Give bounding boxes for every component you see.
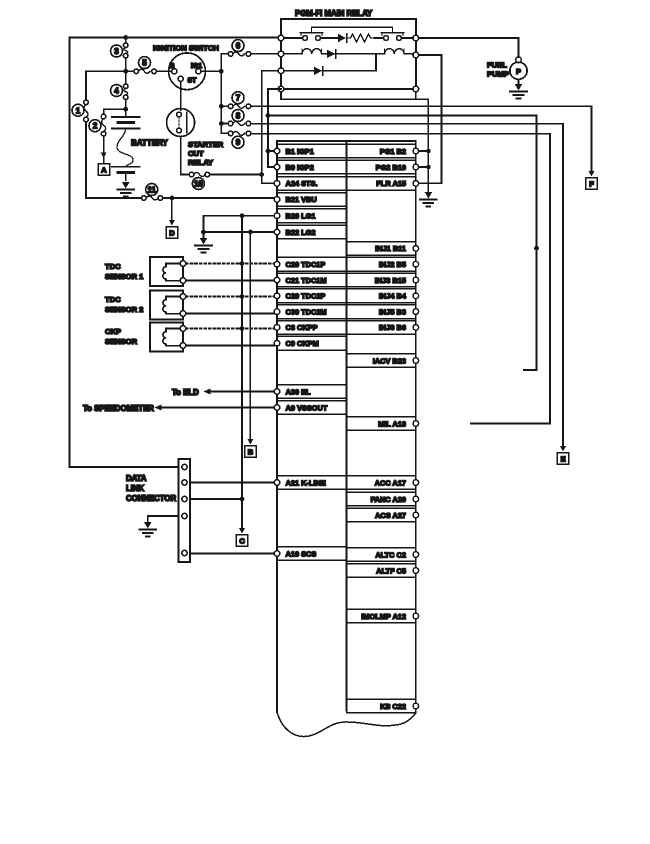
ECU pin box B1 IGP1 (274, 144, 346, 158)
ECU pin box INJ1 B11 (347, 242, 419, 256)
svg-text:5: 5 (142, 59, 147, 68)
connector C with arrow (236, 528, 248, 546)
CKP sensor (150, 323, 186, 352)
wire DLC pin4 to ground (148, 516, 179, 522)
node DLC pin3 junction (240, 497, 245, 502)
wire relay bottom pins to power ground bus (281, 92, 428, 192)
wire ignition vertical bus (220, 54, 222, 133)
fuse 10 (189, 172, 209, 189)
svg-text:B: B (248, 448, 254, 457)
fuse 7 and wire to connector F (221, 92, 591, 172)
svg-text:FANC A20: FANC A20 (371, 495, 406, 504)
TDC sensor 2 (150, 291, 186, 320)
node D branch (170, 196, 175, 201)
svg-text:4: 4 (114, 87, 119, 96)
svg-text:PGM-FI MAIN RELAY: PGM-FI MAIN RELAY (295, 9, 373, 18)
svg-text:8: 8 (236, 112, 241, 121)
svg-text:LINK: LINK (126, 484, 145, 493)
svg-text:2: 2 (93, 122, 98, 131)
ECU pin box INJ2 B5 (347, 257, 419, 271)
relay pin left 1 (278, 35, 284, 41)
node injector feed junction (266, 113, 271, 118)
connector box A with arrow (98, 153, 110, 176)
svg-text:PUMP: PUMP (487, 70, 509, 79)
svg-text:B22 LG2: B22 LG2 (286, 228, 316, 237)
fuse 1 (72, 100, 88, 122)
wire ST to starter cut relay (180, 81, 182, 110)
relay coil 2 (376, 49, 413, 54)
wire battery feed vertical (125, 38, 127, 118)
ECU pin box A10 SCS (274, 547, 346, 561)
wire fuse 10 to STS node (210, 174, 262, 176)
relay pin right 1 (413, 35, 419, 41)
svg-text:IGNITION SWITCH: IGNITION SWITCH (153, 44, 219, 53)
wire injector feed to IAC (268, 116, 537, 371)
wire starter relay to fuse 10 (181, 137, 190, 175)
svg-text:INJ1 B11: INJ1 B11 (375, 244, 406, 253)
ground LG (195, 238, 212, 253)
svg-text:E: E (561, 455, 566, 464)
battery B1 (112, 117, 140, 180)
svg-text:FLR A15: FLR A15 (376, 179, 406, 188)
fuse 9 and wire to MIL (221, 131, 550, 423)
wire relay bottom left to B1 B9 (268, 89, 281, 167)
label TDC SENSOR 2 (105, 295, 143, 314)
connector F with arrow (586, 171, 598, 189)
wire PG2 stub (419, 166, 429, 168)
fuse 6 (221, 40, 281, 57)
ECU pin box B22 LG2 (274, 225, 346, 239)
node PG2 junction (426, 165, 431, 170)
wire DLC pin5 to A10 (190, 553, 274, 555)
node fuse7 junction (219, 104, 224, 109)
relay resistor R1 (347, 34, 375, 42)
node fuse8 junction (219, 121, 224, 126)
wire STS vertical from relay pin3 to A24 (262, 71, 281, 184)
svg-text:11: 11 (147, 186, 156, 195)
svg-text:INJ4 B4: INJ4 B4 (379, 292, 407, 301)
ECU pin box B9 IGP2 (274, 160, 346, 174)
relay pin right 2 (413, 52, 419, 58)
svg-text:A: A (101, 166, 107, 175)
relay diode D2 (322, 50, 376, 71)
wire LG2 vertical bus to connector B (249, 232, 251, 440)
ECU pin box C9 CKPM (274, 336, 346, 350)
ECU pin box C8 CKPP (274, 321, 346, 335)
relay pin bottom right (413, 86, 419, 92)
ECU pin box A9 VSSOUT (274, 401, 346, 415)
relay diode D1 (320, 34, 346, 42)
node battery feed junction (123, 35, 128, 40)
svg-text:C30 TDC2M: C30 TDC2M (286, 307, 327, 316)
svg-text:B: B (169, 63, 174, 70)
svg-text:9: 9 (236, 138, 241, 147)
ground fuel pump (510, 84, 527, 99)
ECU pin box A21 K-LINE (274, 476, 346, 490)
label DATA LINK CONNECTOR (126, 474, 176, 503)
ECU pin box INJ6 B6 (347, 321, 419, 335)
ECU pin box IMOLMP A12 (347, 609, 419, 623)
wire B22 LG2 to ground bus (204, 231, 275, 233)
svg-text:INJ5 B3: INJ5 B3 (379, 307, 406, 316)
ECU box top edge (277, 140, 416, 142)
svg-text:IG1: IG1 (191, 63, 202, 70)
wire CKP shield dotted (186, 328, 274, 330)
svg-text:MIL A18: MIL A18 (378, 419, 406, 428)
svg-text:1: 1 (76, 106, 81, 115)
svg-text:B9 IGP2: B9 IGP2 (286, 163, 314, 172)
relay pin bottom left (278, 86, 284, 92)
relay contact 2 (375, 27, 414, 40)
starter cut relay K2 (167, 109, 195, 137)
node shield bus top (240, 213, 245, 218)
svg-text:ACC A17: ACC A17 (375, 478, 406, 487)
wire TDC2 minus (186, 313, 274, 315)
wire relay pin right2 to FLR (419, 55, 442, 183)
svg-text:IACV B23: IACV B23 (373, 356, 406, 365)
svg-text:CKP: CKP (105, 327, 121, 336)
wire branch to fuse 2 (104, 109, 126, 162)
svg-text:C: C (239, 537, 245, 546)
node branch to fuse 2 (123, 107, 128, 112)
svg-text:SENSOR 1: SENSOR 1 (105, 272, 144, 281)
svg-text:A9 VSSOUT: A9 VSSOUT (286, 403, 328, 412)
node LG junction (201, 230, 206, 235)
relay contact 1 (284, 27, 323, 40)
fuse 11 (142, 184, 163, 201)
ECU pin box INJ5 B3 (347, 305, 419, 319)
wire To ELD with arrow (172, 388, 274, 397)
wire DLC pin2 to A21 (190, 482, 274, 484)
ECU pin box KS C22 (347, 699, 419, 713)
ECU pin box ALTF C5 (347, 564, 419, 578)
svg-text:C8 CKPP: C8 CKPP (286, 323, 318, 332)
wire DLC pin3 to shield bus (190, 498, 242, 500)
wire shield vertical bus to connector C (241, 216, 243, 529)
svg-text:INJ2 B5: INJ2 B5 (379, 260, 406, 269)
svg-text:A30 EL: A30 EL (286, 387, 312, 396)
svg-text:RELAY: RELAY (188, 158, 213, 167)
fuse 5 (134, 57, 156, 74)
label CKP SENSOR (105, 327, 138, 346)
ECU torn bottom edge (277, 712, 416, 737)
wire left frame vertical (69, 38, 71, 468)
relay pin left 2 (278, 51, 284, 57)
data link connector J1 (179, 459, 191, 562)
wire TDC1 minus (186, 280, 274, 282)
connector B with arrow (245, 439, 257, 457)
ECU pin box C29 TDC2P (274, 289, 346, 303)
TDC sensor 1 (150, 257, 186, 286)
relay pin left 3 (278, 68, 284, 74)
svg-text:3: 3 (114, 47, 119, 56)
connector E with arrow (557, 446, 569, 464)
svg-text:B1 IGP1: B1 IGP1 (286, 147, 314, 156)
svg-text:C9 CKPM: C9 CKPM (286, 339, 319, 348)
svg-text:PG1 B2: PG1 B2 (380, 147, 406, 156)
label TDC SENSOR 1 (105, 262, 144, 281)
wire IG1 to vertical bus (201, 70, 221, 72)
node TDC2 shield junction (240, 294, 245, 299)
svg-text:C20 TDC1P: C20 TDC1P (286, 260, 326, 269)
node PG1 junction (426, 149, 431, 154)
wire top feed horizontal (70, 37, 282, 39)
svg-text:INJ6 B6: INJ6 B6 (379, 323, 406, 332)
ECU pin box INJ3 B15 (347, 273, 419, 287)
svg-text:INJ3 B15: INJ3 B15 (375, 276, 406, 285)
svg-text:ST: ST (188, 78, 198, 85)
svg-text:B21 VBU: B21 VBU (286, 195, 317, 204)
connector D with arrow (166, 198, 178, 238)
wire ignition feed horizontal (86, 70, 172, 72)
wire To SPEEDOMETER with arrow (83, 404, 274, 413)
relay armature wire (312, 26, 393, 28)
ECU pin box C20 TDC1P (274, 257, 346, 271)
ECU box right edge (415, 141, 417, 713)
ECU pin box INJ4 B4 (347, 289, 419, 303)
ECU pin box PG1 B2 (347, 144, 419, 158)
fuse 4 (111, 84, 128, 100)
ECU pin box B21 VBU (274, 193, 346, 207)
fuse 3 (111, 43, 128, 58)
wire TDC1 shield dotted (186, 263, 274, 265)
ECU pin box PG2 B10 (347, 160, 419, 174)
ignition switch U2 (169, 53, 206, 90)
ECU pin box FANC A20 (347, 492, 419, 506)
svg-text:TDC: TDC (105, 295, 121, 304)
ECU pin box MIL A18 (347, 417, 419, 431)
fuse 8 and wire to connector E (221, 110, 563, 448)
ECU pin box A24 STS. (274, 177, 346, 191)
svg-text:A24 STS.: A24 STS. (286, 179, 318, 188)
svg-text:DATA: DATA (126, 474, 147, 483)
svg-text:A10 SCS: A10 SCS (286, 549, 317, 558)
ECU pin box A30 EL (274, 385, 346, 399)
svg-text:ALTF C5: ALTF C5 (376, 566, 406, 575)
fuse 11 row wire (86, 197, 274, 199)
svg-text:TDC: TDC (105, 262, 121, 271)
svg-text:BATTERY: BATTERY (131, 139, 169, 148)
fuel pump P1 (510, 57, 527, 84)
svg-text:F: F (589, 180, 594, 189)
wire inner vertical to fuse 11 row (85, 71, 87, 198)
svg-text:To SPEEDOMETER: To SPEEDOMETER (83, 404, 154, 413)
ground DLC (139, 522, 156, 537)
svg-text:PG2 B10: PG2 B10 (376, 163, 406, 172)
ECU pin box ACS A27 (347, 508, 419, 522)
svg-text:IMOLMP A12: IMOLMP A12 (361, 612, 406, 621)
svg-text:B20 LG1: B20 LG1 (286, 212, 316, 221)
node STS junction (259, 172, 264, 177)
node ignition feed junction (123, 69, 128, 74)
svg-text:C29 TDC2P: C29 TDC2P (286, 292, 326, 301)
fuse 2 (89, 114, 106, 136)
ECU pin box C21 TDC1M (274, 273, 346, 287)
svg-text:6: 6 (236, 42, 241, 51)
svg-text:CUT: CUT (188, 149, 204, 158)
svg-text:D: D (169, 229, 175, 238)
svg-text:7: 7 (236, 94, 241, 103)
svg-text:ALTC C2: ALTC C2 (375, 550, 406, 559)
svg-text:P: P (516, 67, 521, 76)
wire TDC2 shield dotted (186, 296, 274, 298)
wire CKP minus (186, 345, 274, 347)
svg-text:ACS A27: ACS A27 (375, 511, 406, 520)
wire B20 LG1 to ground (204, 216, 275, 238)
node B1 junction (266, 149, 271, 154)
label FUEL PUMP (487, 61, 509, 79)
node CKP shield junction (240, 326, 245, 331)
relay diode D3 (284, 67, 376, 75)
svg-text:C21 TDC1M: C21 TDC1M (286, 276, 327, 285)
ECU box left edge (276, 141, 278, 712)
label STARTER CUT RELAY (188, 140, 224, 167)
PGM-FI main relay box (281, 19, 416, 89)
ECU pin box ACC A17 (347, 476, 419, 490)
ground battery (117, 180, 134, 197)
ground power ground (420, 192, 437, 207)
ECU pin box IACV B23 (347, 354, 419, 368)
svg-text:SENSOR: SENSOR (105, 337, 138, 346)
ECU pin box ALTC C2 (347, 548, 419, 562)
node injector No1 feed junction (534, 246, 539, 251)
ECU pin box FLR A15 (347, 177, 419, 191)
wire PG1 stub (419, 150, 429, 152)
wire relay to fuel pump (419, 38, 519, 57)
svg-text:To ELD: To ELD (172, 388, 199, 397)
ECU pin box C30 TDC2M (274, 305, 346, 319)
wire frame to DLC pin1 (70, 466, 179, 468)
svg-text:SENSOR 2: SENSOR 2 (105, 305, 143, 314)
node TDC1 shield junction (240, 261, 245, 266)
svg-text:KS C22: KS C22 (380, 702, 406, 711)
ECU pin box B20 LG1 (274, 209, 346, 223)
svg-text:A21 K-LINE: A21 K-LINE (286, 478, 326, 487)
svg-text:FUEL: FUEL (487, 61, 507, 70)
node LG2 bus top (248, 230, 253, 235)
svg-text:10: 10 (194, 180, 203, 189)
node IG1 junction (219, 69, 224, 74)
svg-text:STARTER: STARTER (188, 140, 224, 149)
svg-text:CONNECTOR: CONNECTOR (126, 494, 176, 503)
ECU box divider (346, 141, 348, 710)
relay coil 1 (284, 49, 322, 54)
